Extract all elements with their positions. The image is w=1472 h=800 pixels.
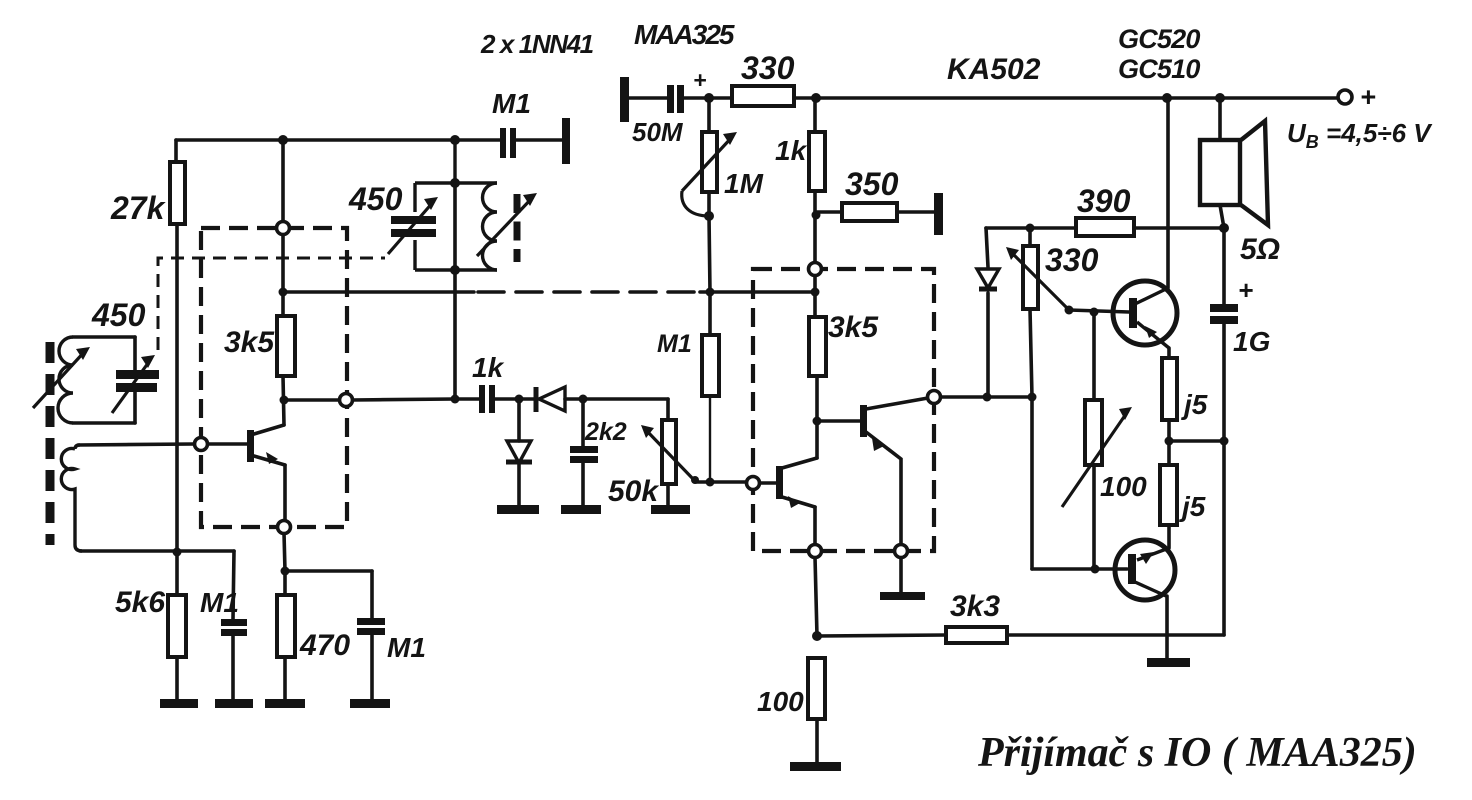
svg-text:330: 330 (741, 50, 795, 86)
svg-text:MAA325: MAA325 (634, 19, 735, 50)
svg-text:100: 100 (1100, 471, 1147, 502)
svg-text:2 x 1NN41: 2 x 1NN41 (480, 29, 594, 59)
svg-text:1k: 1k (472, 352, 505, 383)
svg-text:3k3: 3k3 (950, 590, 1000, 623)
svg-text:+: + (1360, 82, 1376, 112)
svg-text:j5: j5 (1178, 491, 1206, 522)
svg-text:390: 390 (1077, 183, 1131, 219)
svg-text:100: 100 (757, 686, 804, 717)
svg-text:M1: M1 (387, 632, 426, 663)
svg-text:GC520: GC520 (1118, 24, 1200, 54)
svg-text:j5: j5 (1180, 389, 1208, 420)
svg-text:450: 450 (348, 181, 403, 217)
svg-text:+: + (1238, 275, 1253, 305)
svg-text:KA502: KA502 (947, 53, 1041, 86)
svg-text:M1: M1 (200, 587, 239, 618)
svg-text:50M: 50M (632, 117, 684, 147)
svg-text:2k2: 2k2 (584, 418, 627, 446)
svg-text:330: 330 (1045, 242, 1099, 278)
svg-text:M1: M1 (657, 330, 692, 358)
svg-text:5k6: 5k6 (115, 586, 165, 619)
svg-text:3k5: 3k5 (224, 326, 275, 359)
svg-text:GC510: GC510 (1118, 54, 1200, 84)
svg-text:50k: 50k (608, 475, 659, 508)
svg-text:+: + (693, 67, 706, 93)
svg-text:1G: 1G (1233, 326, 1270, 357)
svg-text:350: 350 (845, 166, 899, 202)
svg-text:1k: 1k (775, 135, 808, 166)
svg-text:5Ω: 5Ω (1240, 233, 1280, 266)
svg-text:M1: M1 (492, 88, 531, 119)
svg-text:27k: 27k (110, 190, 167, 226)
svg-text:3k5: 3k5 (828, 311, 879, 344)
svg-text:470: 470 (299, 629, 350, 662)
svg-text:450: 450 (91, 297, 146, 333)
svg-text:Přijímač s IO ( MAA325): Přijímač s IO ( MAA325) (977, 730, 1417, 776)
svg-text:1M: 1M (724, 168, 764, 199)
